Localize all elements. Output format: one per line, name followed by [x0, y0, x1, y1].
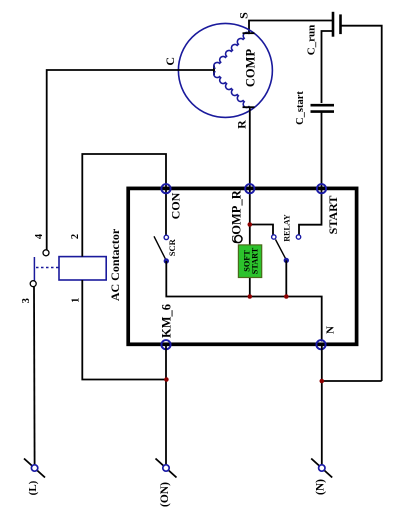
- wire contact 3 down to (L): [33, 287, 36, 465]
- wire START terminal down to relay right contact: [299, 189, 322, 236]
- mechanical link dashed: [36, 267, 59, 269]
- wire coil terminal 2 up and over to CON: [82, 154, 166, 257]
- AC contactor coil: [59, 257, 106, 280]
- svg-text:(N): (N): [314, 479, 326, 495]
- svg-text:C_start: C_start: [295, 91, 306, 125]
- wire CON terminal down to SCR: [165, 189, 167, 236]
- wire N junction to right rail: [322, 380, 382, 382]
- terminal CON: [161, 184, 170, 193]
- terminal COMP_R: [245, 184, 254, 193]
- svg-text:C: C: [163, 57, 177, 66]
- compressor motor COMP circle: [178, 23, 272, 117]
- junction dot KM_6: [164, 377, 169, 382]
- wire SCR down and right along inner bus: [166, 261, 321, 342]
- R terminal tick: [243, 106, 255, 108]
- wire N terminal down to (N): [321, 345, 323, 465]
- junction dot soft start bottom: [248, 294, 253, 299]
- junction dot COMP_R/relay: [248, 222, 253, 227]
- svg-text:(L): (L): [27, 480, 39, 495]
- control box outline: [128, 188, 356, 344]
- wire C_run right lead to right rail: [341, 26, 382, 381]
- wire COMP_R down through soft start: [249, 189, 251, 245]
- terminal (L): [24, 459, 45, 478]
- terminal (ON): [156, 459, 177, 478]
- soft start corner circle: [235, 235, 242, 242]
- svg-text:N: N: [325, 326, 337, 334]
- SCR pole dot: [164, 259, 168, 263]
- wire C_start to START terminal: [321, 112, 323, 187]
- terminal (N): [311, 459, 332, 478]
- relay left contact: [272, 235, 276, 239]
- svg-text:2: 2: [70, 234, 81, 239]
- contact blade: [33, 257, 35, 281]
- capacitor C_start: [311, 105, 335, 111]
- relay pole dot: [284, 258, 288, 262]
- relay blade: [276, 240, 287, 260]
- svg-text:AC Contactor: AC Contactor: [108, 228, 122, 301]
- svg-text:S: S: [236, 12, 250, 19]
- winding common bar: [213, 66, 215, 76]
- wire top from S to C_run: [249, 21, 333, 34]
- wire stub to C_start branch: [322, 31, 334, 103]
- wire relay pole down to bus: [285, 260, 287, 296]
- terminal 3 circle: [30, 281, 36, 287]
- relay right contact: [296, 235, 300, 239]
- svg-text:(ON): (ON): [159, 482, 171, 507]
- S terminal tick: [243, 32, 255, 34]
- svg-text:4: 4: [34, 233, 45, 239]
- wire R lead down to COMP_R terminal: [249, 107, 251, 187]
- soft start module: [238, 245, 261, 278]
- svg-text:SCR: SCR: [167, 238, 177, 256]
- terminal N: [316, 340, 325, 349]
- capacitor C_run: [333, 12, 341, 37]
- winding S (start): [212, 31, 249, 69]
- winding R (run): [212, 72, 249, 110]
- svg-text:C_run: C_run: [306, 25, 318, 56]
- svg-text:1: 1: [71, 298, 82, 303]
- wire KM_6 down to (ON): [165, 345, 167, 465]
- SCR blade: [154, 236, 166, 260]
- terminal KM_6: [161, 340, 170, 349]
- junction dot relay bottom: [284, 294, 289, 299]
- svg-text:START: START: [251, 247, 260, 274]
- wire coil terminal 1 down to KM_6 junction: [82, 280, 166, 380]
- svg-text:COMP: COMP: [243, 49, 257, 88]
- svg-text:RELAY: RELAY: [283, 214, 292, 241]
- terminal START: [317, 184, 326, 193]
- junction dot N: [320, 379, 325, 384]
- wire COMP_R junction to relay left contact: [250, 225, 273, 236]
- AC contactor NO contact: terminal 4 circle: [43, 250, 49, 256]
- wire C lead left and down to contact 4: [47, 70, 215, 250]
- svg-text:START: START: [326, 196, 340, 235]
- svg-text:KM_6: KM_6: [160, 304, 174, 338]
- svg-text:3: 3: [21, 298, 32, 303]
- svg-text:R: R: [235, 120, 249, 129]
- svg-text:CON: CON: [168, 192, 182, 219]
- SCR switch top contact: [164, 235, 168, 239]
